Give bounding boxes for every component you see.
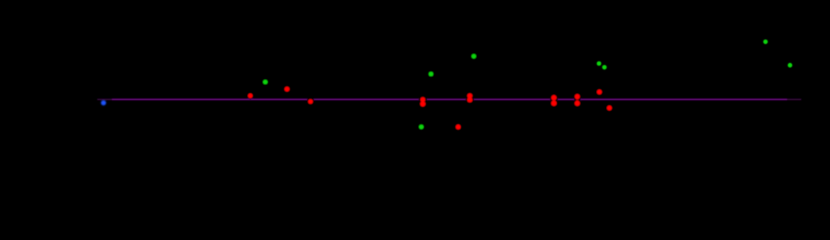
red point R4a bbox=[420, 97, 425, 102]
blue point P1 bbox=[101, 100, 106, 105]
red point R7b bbox=[551, 100, 557, 106]
green point G7 bbox=[788, 63, 793, 68]
red point R10 bbox=[607, 106, 612, 111]
red point R2 halo bbox=[283, 85, 292, 94]
red pair R7a/R7b halo bbox=[550, 93, 559, 102]
red point R8a bbox=[575, 94, 580, 99]
red point R2 bbox=[285, 87, 290, 92]
red point R5b bbox=[467, 97, 472, 102]
red point R9 bbox=[597, 90, 602, 95]
red pair R5 connector bbox=[469, 96, 472, 100]
red point R3 bbox=[308, 99, 313, 104]
red point R1 halo bbox=[247, 92, 254, 99]
red point R6 halo bbox=[454, 123, 463, 132]
bright purple line (inner extent) bbox=[112, 98, 787, 100]
green point G3 bbox=[472, 54, 477, 59]
red pair R4 connector bbox=[422, 100, 425, 104]
green point G4 halo bbox=[417, 123, 426, 132]
green point G6 bbox=[763, 40, 768, 45]
red pair R8a/R8b halo bbox=[573, 92, 582, 101]
red point R1 bbox=[248, 93, 253, 98]
green point G1 halo bbox=[261, 78, 270, 87]
red point R4b bbox=[420, 101, 425, 106]
red pair R7 connector bbox=[553, 98, 556, 104]
red pair R5a/R5b halo bbox=[466, 92, 475, 101]
green point G2 halo bbox=[427, 70, 436, 79]
green pair G5a/G5b bbox=[597, 61, 602, 66]
red point R9 halo bbox=[595, 88, 604, 97]
red point R5a bbox=[467, 93, 472, 98]
red point R6 bbox=[456, 125, 461, 130]
red point R7a bbox=[551, 95, 556, 100]
dark purple baseline (full extent) bbox=[97, 98, 801, 100]
red point R10 halo bbox=[605, 104, 614, 113]
green point G3 halo bbox=[470, 52, 479, 61]
red pair R4a/R4b halo bbox=[419, 95, 428, 104]
green point G1 bbox=[263, 80, 268, 85]
red point R3 halo bbox=[307, 98, 315, 106]
red pair R8 connector bbox=[576, 97, 578, 104]
green point G2 bbox=[429, 72, 434, 77]
red point R8b bbox=[575, 101, 580, 106]
green point G4 bbox=[419, 125, 424, 130]
